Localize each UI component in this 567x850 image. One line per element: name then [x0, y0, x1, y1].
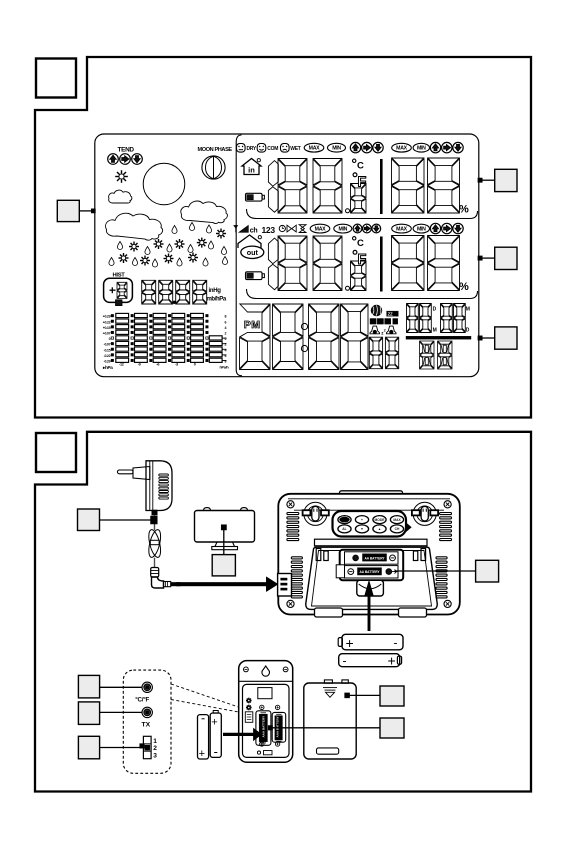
svg-text:F: F: [358, 175, 367, 191]
svg-text:▼: ▼: [360, 527, 363, 531]
svg-text:-9: -9: [138, 362, 141, 366]
arrow to DC jack: [266, 577, 278, 592]
alarm icon cluster: [370, 305, 398, 335]
battery AA 2: [339, 653, 402, 669]
body inner lines: [288, 499, 450, 510]
battery cover: [304, 680, 356, 759]
svg-text:MIN: MIN: [417, 227, 426, 233]
divider row1-row2: [247, 209, 478, 219]
svg-text:AL: AL: [342, 527, 346, 531]
HIST label: [113, 273, 126, 279]
sensor hanging hole: [262, 666, 270, 676]
sensor body: [239, 661, 293, 763]
row2 humidity digits: [392, 236, 460, 291]
svg-text:MAX: MAX: [393, 518, 401, 522]
svg-text:-12: -12: [119, 362, 124, 366]
sensor divider: [239, 680, 292, 682]
svg-text:4: 4: [225, 326, 227, 330]
stand top view: [195, 508, 255, 550]
svg-text:+0.22: +0.22: [103, 320, 111, 324]
callout box 10: [78, 702, 142, 725]
svg-text:DRY: DRY: [247, 146, 257, 152]
row1 humidity digits: [392, 158, 460, 213]
battery compartment: [336, 550, 403, 581]
panel 1 label box: [36, 59, 76, 98]
sensor led window: [258, 688, 272, 699]
weather section divider: [236, 135, 242, 376]
svg-text:M: M: [466, 306, 470, 312]
svg-text:2: 2: [384, 328, 386, 332]
svg-text:MIN: MIN: [338, 227, 347, 233]
svg-text:M: M: [433, 328, 437, 334]
frost snowflake: [115, 170, 128, 183]
row2 temperature digits: [268, 236, 366, 291]
callout box 11: [78, 736, 144, 759]
sensor slot contacts: [261, 713, 282, 743]
MOON PHASE label: [198, 147, 233, 153]
row1 trend arrows: [350, 142, 383, 152]
svg-text:0: 0: [109, 337, 111, 341]
svg-text:AAA BATTERY: AAA BATTERY: [276, 716, 280, 737]
svg-text:-3: -3: [175, 362, 178, 366]
svg-text:+: +: [361, 518, 363, 522]
channel label: [250, 225, 276, 235]
pressure bar chart: [102, 313, 229, 370]
rain and snow field: [109, 223, 228, 268]
svg-text:0: 0: [194, 362, 196, 366]
house out icon: [238, 235, 264, 259]
svg-text:AAA BATTERY: AAA BATTERY: [261, 715, 265, 738]
keyhole hangers: [303, 502, 438, 525]
svg-text:3: 3: [153, 753, 157, 760]
row2 battery icon: [246, 272, 265, 280]
sensor screws: [260, 705, 280, 746]
svg-text:+: +: [388, 653, 396, 669]
DC barrel connector: [151, 568, 181, 589]
svg-text:inHg: inHg: [209, 288, 222, 294]
svg-text:-0.07: -0.07: [104, 343, 111, 347]
callout box 12 cover: [345, 686, 404, 706]
weekday digits: [420, 341, 453, 369]
station body: [278, 494, 460, 615]
callout box 7 stand: [212, 530, 235, 576]
svg-text:123: 123: [262, 225, 276, 235]
row1 battery icon: [246, 193, 265, 201]
battery AA 1: [338, 634, 403, 651]
callout box 8 battery: [395, 560, 499, 582]
big cloud: [106, 213, 163, 240]
row2 rf signal icon: [234, 226, 248, 233]
station top tab: [340, 491, 403, 498]
svg-text:mb/hPa: mb/hPa: [207, 296, 227, 302]
svg-text:-: -: [394, 636, 398, 650]
svg-text:-0.29: -0.29: [104, 360, 111, 364]
svg-text:6: 6: [225, 320, 227, 324]
vent slots: [287, 513, 452, 598]
pressure digits: [142, 280, 207, 304]
row1 comfort icons: [237, 144, 301, 153]
row1 MAX MIN ovals: [304, 143, 345, 152]
seconds digits: [369, 337, 398, 369]
date digits: [407, 304, 470, 334]
svg-text:MAX: MAX: [315, 227, 326, 233]
svg-text:+0.07: +0.07: [103, 332, 111, 336]
svg-text:MAX: MAX: [396, 227, 407, 233]
battery AAA 2: [210, 711, 221, 758]
channel switch: [143, 736, 157, 759]
svg-text:D: D: [433, 306, 437, 312]
svg-text:▲: ▲: [378, 527, 381, 531]
svg-text:MODE: MODE: [375, 518, 386, 522]
rubber feet: [315, 608, 427, 617]
row2 small icons: [279, 225, 306, 233]
row1 percent: [459, 204, 469, 216]
callout box 13 sensor battery: [268, 718, 404, 738]
arrow adapter to station: [171, 582, 267, 586]
svg-text:C: C: [357, 161, 364, 172]
panel 2 frame: [35, 432, 531, 792]
svg-text:-: -: [343, 654, 347, 668]
svg-text:AA BATTERY: AA BATTERY: [359, 570, 380, 574]
svg-text:8: 8: [225, 315, 227, 319]
LCD outline: [95, 134, 479, 377]
svg-text:MAX: MAX: [309, 146, 320, 152]
date underline bar: [406, 336, 471, 339]
svg-text:WET: WET: [290, 146, 300, 152]
svg-text:2: 2: [225, 332, 227, 336]
svg-text:COM: COM: [267, 146, 278, 152]
svg-text:+0.15: +0.15: [103, 326, 111, 330]
svg-text:ch: ch: [250, 227, 258, 234]
callout box 4 right middle: [478, 247, 517, 269]
sensor battery slot 1: [256, 711, 271, 746]
PM label: [244, 319, 261, 331]
callout box 3 right top: [478, 169, 517, 191]
row2 humidity arrows: [430, 223, 463, 233]
arrow batteries to sensor: [223, 729, 262, 741]
button panel: [333, 511, 412, 537]
row1 degree C F: [353, 159, 367, 190]
svg-text:F: F: [358, 252, 367, 268]
pressure units: [207, 288, 227, 302]
svg-text:in: in: [248, 166, 255, 175]
callout box 5 right bottom: [478, 327, 517, 349]
row2 MAX MIN ovals: [310, 224, 352, 233]
svg-text:AA BATTERY: AA BATTERY: [364, 556, 385, 560]
divider row2-row3: [247, 289, 478, 299]
svg-text:hPa/h: hPa/h: [220, 366, 230, 370]
svg-text:+: +: [199, 748, 205, 760]
row2 percent: [459, 281, 469, 293]
svg-text:MAX: MAX: [396, 146, 407, 152]
fold-out stand: [306, 547, 438, 609]
sensor battery slot 2: [272, 712, 286, 742]
trend arrows: [108, 154, 143, 165]
panel 2 label box: [36, 433, 76, 472]
row2 trend arrows: [353, 224, 381, 233]
small cloud: [109, 190, 132, 203]
svg-text:+0.29: +0.29: [103, 315, 111, 319]
moon icon: [202, 156, 225, 179]
callout box 9: [78, 675, 142, 698]
row2 degree C F: [353, 237, 367, 268]
svg-text:-0.15: -0.15: [104, 348, 111, 352]
sensor left icons: [245, 698, 253, 723]
svg-text:out: out: [247, 248, 259, 257]
svg-text:-6: -6: [156, 362, 159, 366]
row1 temperature digits: [268, 159, 366, 214]
C/F button: [135, 682, 152, 704]
svg-text:-0.22: -0.22: [104, 354, 111, 358]
sun: [143, 163, 185, 205]
AC adapter plug prong: [118, 467, 150, 480]
sensor bottom detail: [257, 751, 272, 755]
svg-text:TX: TX: [142, 721, 151, 728]
sensor controls dashed box: [123, 670, 171, 773]
house in icon: [242, 159, 261, 175]
svg-text:+: +: [346, 635, 354, 651]
svg-text:MOON PHASE: MOON PHASE: [198, 147, 233, 153]
svg-text:%: %: [459, 281, 469, 293]
callout box 6 adapter: [78, 509, 158, 531]
arrow to battery compartment: [365, 581, 374, 631]
corner screws: [287, 501, 451, 608]
svg-text:MIN: MIN: [332, 146, 341, 152]
svg-text:▸hPa: ▸hPa: [102, 365, 113, 370]
battery AAA 1: [198, 715, 209, 760]
svg-text:C: C: [357, 238, 364, 249]
stand clip tabs: [316, 549, 425, 561]
svg-text:1: 1: [153, 738, 157, 745]
row1 humidity arrows: [430, 142, 463, 152]
svg-text:%: %: [459, 204, 469, 216]
stand rail: [315, 539, 428, 546]
svg-text:D: D: [466, 328, 470, 334]
TX button: [142, 707, 153, 728]
svg-text:+: +: [211, 716, 217, 728]
svg-text:ZZ: ZZ: [388, 311, 394, 316]
callout box 2 left: [57, 200, 95, 221]
row2 divider bar: [380, 237, 383, 292]
sensor top screws: [244, 667, 289, 672]
stand lock tab: [357, 580, 384, 596]
TEND label: [118, 147, 135, 154]
rain cloud right: [181, 201, 228, 223]
row1 humidity MAX MIN: [392, 143, 430, 152]
row1 divider bar: [380, 159, 383, 214]
panel 1 frame: [35, 57, 531, 418]
svg-text:PM: PM: [244, 319, 261, 331]
sensor inner compartment: [243, 684, 290, 757]
row2 humidity MAX MIN: [392, 224, 430, 233]
svg-text:MIN: MIN: [417, 146, 426, 152]
dashed pointer lines: [171, 684, 239, 712]
HIST pressure-history icon: [104, 278, 133, 305]
time digits: [240, 304, 369, 370]
AC adapter cord and coil: [147, 510, 163, 568]
svg-text:TEND: TEND: [118, 147, 135, 154]
svg-text:CH: CH: [395, 527, 400, 531]
svg-text:2: 2: [153, 745, 157, 752]
AC adapter body: [146, 461, 172, 511]
svg-text:°C/°F: °C/°F: [135, 697, 149, 704]
DC jack: [278, 574, 292, 597]
